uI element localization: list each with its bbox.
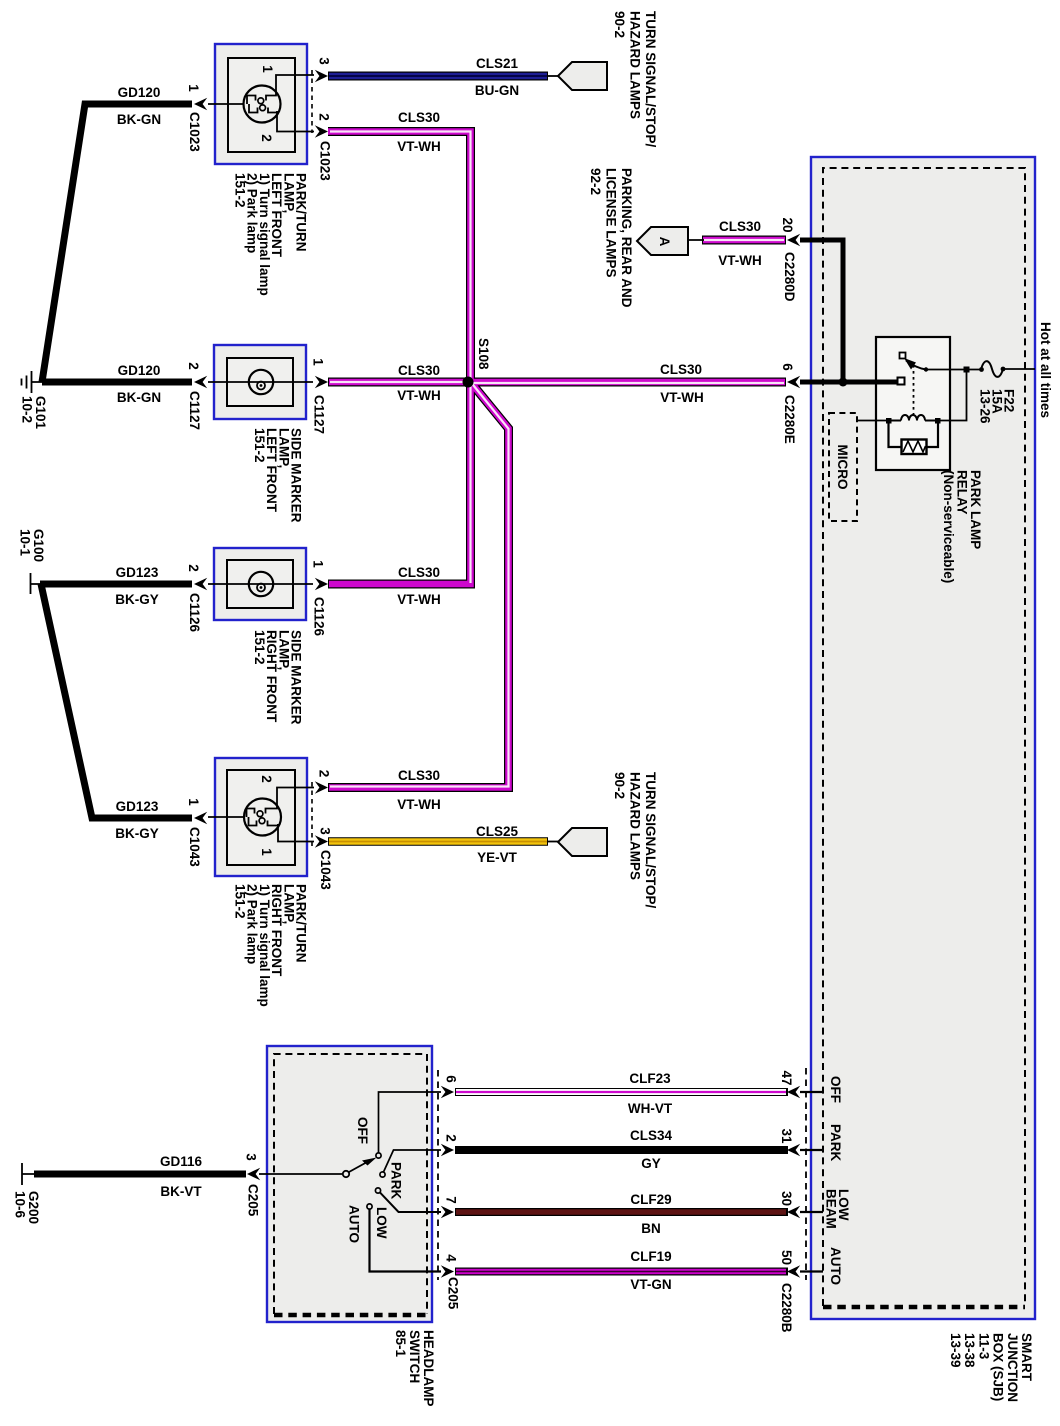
- svg-text:BK-VT: BK-VT: [160, 1184, 202, 1199]
- arrow lamp LF pin2: [315, 125, 328, 138]
- svg-text:CLF19: CLF19: [630, 1249, 671, 1264]
- side marker lamp right front box: [214, 548, 306, 620]
- switch LOW blade: [375, 1188, 380, 1193]
- splice S108: [463, 377, 474, 388]
- svg-text:CLS30: CLS30: [660, 362, 702, 377]
- switch common terminal: [343, 1171, 349, 1177]
- arrow switch pin3: [247, 1168, 260, 1181]
- smart junction box SJB outer box: [811, 157, 1035, 1319]
- arrow switch pin4: [441, 1265, 454, 1278]
- svg-text:CLF23: CLF23: [629, 1071, 671, 1086]
- side marker lamp left front inner box: [227, 358, 293, 406]
- svg-text:BU-GN: BU-GN: [475, 83, 519, 98]
- flag A parking rear license lamps: [637, 227, 688, 255]
- side marker lamp left front box: [214, 345, 306, 419]
- svg-text:C1043: C1043: [187, 827, 202, 867]
- park/turn lamp left front inner box: [228, 58, 295, 152]
- wire GD123 lamp RF pin1 to G100: [41, 584, 192, 818]
- arrow lamp RF pin2: [315, 781, 328, 794]
- arrow SM LF pin2: [194, 376, 207, 389]
- svg-text:GD123: GD123: [116, 799, 159, 814]
- wire GD123 side marker RF pin2 to G100: [40, 581, 192, 588]
- bulb lamp RF leads: [208, 788, 314, 842]
- svg-text:1: 1: [260, 65, 275, 73]
- bulb side marker RF filament: [257, 584, 265, 592]
- svg-text:C205: C205: [246, 1184, 261, 1217]
- wire CLS30 VT-WH network black underlay: [328, 132, 786, 788]
- wire CLF29 BN: [455, 1208, 788, 1216]
- svg-text:WH-VT: WH-VT: [628, 1101, 673, 1116]
- svg-text:LOW: LOW: [374, 1207, 389, 1239]
- svg-text:C2280B: C2280B: [779, 1283, 794, 1333]
- svg-text:C1023: C1023: [318, 141, 333, 181]
- svg-text:GY: GY: [641, 1156, 661, 1171]
- svg-text:GD116: GD116: [160, 1154, 203, 1169]
- svg-text:CLS30: CLS30: [398, 110, 440, 125]
- svg-text:GD123: GD123: [116, 565, 159, 580]
- svg-text:S108: S108: [476, 338, 491, 370]
- arrow SJB pin31: [787, 1144, 800, 1157]
- svg-text:6: 6: [444, 1075, 459, 1083]
- relay fixed contact square: [900, 353, 906, 359]
- flag turn signal/stop top: [558, 62, 607, 90]
- svg-text:2: 2: [259, 775, 274, 783]
- svg-text:7: 7: [444, 1196, 459, 1204]
- SJB side links for switch wires: [800, 1092, 823, 1272]
- arrow SM RF pin2: [194, 578, 207, 591]
- svg-text:2: 2: [186, 564, 201, 572]
- wire CLF19 VT-GN: [455, 1268, 788, 1276]
- ground G101: [22, 371, 47, 393]
- svg-text:PARK: PARK: [389, 1162, 404, 1200]
- switch OFF contact line to pin6: [379, 1092, 442, 1153]
- arrow SJB pin30: [787, 1206, 800, 1219]
- relay resistor: [902, 440, 927, 455]
- svg-text:CLS30: CLS30: [398, 565, 440, 580]
- svg-text:CLS34: CLS34: [630, 1128, 673, 1143]
- switch PARK line to pin2: [384, 1150, 442, 1172]
- svg-text:2: 2: [259, 134, 274, 142]
- svg-text:AUTO: AUTO: [828, 1247, 843, 1285]
- wire CLS34 GY: [455, 1146, 788, 1154]
- headlamp switch inner dashed boundary: [274, 1054, 427, 1314]
- wire GD120 lamp LF pin1 to G101: [42, 104, 192, 382]
- svg-text:VT-WH: VT-WH: [397, 388, 441, 403]
- svg-text:C2280D: C2280D: [782, 252, 797, 302]
- smart junction box inner dashed bottom bold edge: [823, 1305, 1025, 1310]
- park/turn lamp right front inner box: [227, 770, 295, 865]
- svg-text:3: 3: [318, 827, 333, 835]
- svg-text:30: 30: [779, 1191, 794, 1206]
- arrow SM LF pin1: [315, 376, 328, 389]
- svg-text:4: 4: [444, 1254, 459, 1262]
- bulb lamp RF filament: [247, 805, 279, 826]
- side marker lamp right front inner box: [227, 560, 293, 608]
- svg-text:C1023: C1023: [187, 112, 202, 152]
- micro dashed box: [829, 413, 857, 521]
- arrow SJB pin47: [787, 1086, 800, 1099]
- svg-text:BN: BN: [641, 1221, 661, 1236]
- bulb side marker LF lead through: [208, 381, 313, 383]
- flag turn signal/stop bottom: [558, 828, 607, 856]
- arrow SJB pin20: [787, 234, 800, 247]
- svg-text:OFF: OFF: [828, 1076, 843, 1103]
- svg-text:1: 1: [259, 848, 274, 856]
- arrow lamp LF pin1: [194, 98, 207, 111]
- svg-text:C1126: C1126: [187, 593, 202, 633]
- svg-text:50: 50: [779, 1250, 794, 1265]
- park/turn lamp right front box: [215, 758, 307, 876]
- svg-text:C1127: C1127: [187, 391, 202, 430]
- svg-text:A: A: [657, 237, 672, 247]
- svg-text:YE-VT: YE-VT: [477, 850, 518, 865]
- switch AUTO line to pin4: [370, 1210, 442, 1272]
- svg-text:BK-GN: BK-GN: [117, 112, 161, 127]
- wire GD116 switch pin3 to G200: [34, 1171, 246, 1178]
- arrow switch pin6: [441, 1086, 454, 1099]
- arrow SJB pin50: [787, 1265, 800, 1278]
- svg-text:BK-GN: BK-GN: [117, 390, 161, 405]
- svg-text:C1126: C1126: [312, 597, 327, 637]
- svg-text:VT-WH: VT-WH: [397, 797, 441, 812]
- relay contact to fuse line: [926, 369, 981, 371]
- svg-text:Hot at all times: Hot at all times: [1038, 322, 1053, 418]
- wire CLS30 VT-WH network magenta: [328, 132, 785, 788]
- wire CLF23 WH-VT: [455, 1088, 788, 1096]
- svg-text:2: 2: [317, 770, 332, 778]
- ground G200: [22, 1163, 38, 1185]
- arrow lamp RF pin1: [194, 812, 207, 825]
- wire CLS25 YE-VT: [546, 841, 560, 843]
- arrow lamp RF pin3: [315, 835, 328, 848]
- svg-text:VT-WH: VT-WH: [718, 253, 762, 268]
- svg-text:PARK: PARK: [828, 1124, 843, 1162]
- switch AUTO contact: [367, 1204, 372, 1209]
- connector C1023 dashed line: [311, 70, 313, 133]
- switch pin3 link: [259, 1173, 342, 1175]
- connector C1043 dashed line: [311, 782, 313, 846]
- svg-text:VT-WH: VT-WH: [397, 592, 441, 607]
- svg-text:3: 3: [244, 1153, 259, 1161]
- park/turn lamp left front box: [215, 44, 307, 164]
- switch OFF contact: [376, 1153, 381, 1158]
- svg-text:BK-GY: BK-GY: [115, 826, 159, 841]
- hot at all times feed line: [1003, 368, 1035, 370]
- svg-text:1: 1: [311, 358, 326, 366]
- bulb lamp LF circle: [244, 86, 281, 123]
- headlamp switch box: [267, 1046, 432, 1322]
- smart junction box inner dashed boundary: [823, 168, 1025, 1306]
- svg-text:C1043: C1043: [318, 850, 333, 890]
- relay blade: [906, 361, 926, 370]
- bulb side marker LF circle: [249, 370, 273, 394]
- switch blade to OFF: [349, 1162, 368, 1173]
- connector C2280B dashed line: [805, 1068, 807, 1280]
- SJB thick feed pin6 line: [800, 380, 897, 385]
- svg-text:1: 1: [186, 798, 201, 806]
- wire CLS21 BU-GN: [546, 75, 560, 77]
- svg-text:GD120: GD120: [118, 363, 161, 378]
- svg-text:CLS21: CLS21: [476, 56, 519, 71]
- svg-text:2: 2: [317, 113, 332, 121]
- switch PARK contact: [380, 1172, 385, 1177]
- svg-text:6: 6: [780, 363, 795, 371]
- arrow SM RF pin1: [315, 578, 328, 591]
- svg-text:CLF29: CLF29: [630, 1192, 671, 1207]
- bulb side marker LF filament: [257, 382, 265, 390]
- svg-text:MICRO: MICRO: [835, 445, 850, 490]
- svg-text:C1127: C1127: [312, 395, 327, 434]
- svg-text:BK-GY: BK-GY: [115, 592, 159, 607]
- headlamp switch inner dashed bottom bold edge: [274, 1313, 427, 1318]
- svg-text:2: 2: [444, 1134, 459, 1142]
- svg-text:31: 31: [779, 1128, 794, 1144]
- svg-text:VT-WH: VT-WH: [660, 390, 704, 405]
- wire CLS30 VT-WH network white stripe: [330, 132, 784, 787]
- park lamp relay box: [876, 337, 950, 470]
- svg-text:CLS25: CLS25: [476, 824, 519, 839]
- relay coil right lead to fuse junction: [940, 370, 967, 421]
- svg-text:CLS30: CLS30: [719, 219, 761, 234]
- svg-text:CLS30: CLS30: [398, 363, 440, 378]
- relay output terminal: [898, 378, 905, 385]
- svg-text:20: 20: [780, 217, 795, 232]
- svg-text:2: 2: [186, 362, 201, 370]
- arrow switch pin2: [441, 1144, 454, 1157]
- fuse F22: [981, 361, 1003, 377]
- relay coil left lead to micro: [857, 420, 886, 422]
- wire CLS30 flag link: [686, 239, 704, 241]
- relay actuator dotted line: [913, 365, 915, 417]
- arrow SJB pin6: [787, 376, 800, 389]
- svg-text:VT-WH: VT-WH: [397, 139, 441, 154]
- bulb side marker RF circle: [249, 572, 273, 596]
- arrow lamp LF pin3: [315, 70, 328, 83]
- relay resistor leads: [889, 423, 939, 447]
- svg-text:CLS30: CLS30: [398, 768, 440, 783]
- svg-text:OFF: OFF: [355, 1117, 370, 1144]
- junction dot on feed: [839, 378, 848, 387]
- bulb side marker RF lead through: [208, 583, 313, 585]
- bulb lamp LF leads: [208, 75, 314, 132]
- svg-text:1: 1: [311, 560, 326, 568]
- svg-text:3: 3: [317, 57, 332, 65]
- arrow switch pin7: [441, 1206, 454, 1219]
- svg-text:VT-GN: VT-GN: [630, 1277, 671, 1292]
- bulb lamp LF filament: [247, 92, 278, 113]
- relay coil: [891, 415, 935, 421]
- svg-text:GD120: GD120: [118, 85, 161, 100]
- svg-text:C205: C205: [446, 1277, 461, 1310]
- bulb lamp RF circle: [244, 799, 281, 836]
- svg-text:C2280E: C2280E: [782, 395, 797, 444]
- SJB thick feed pin20 branch: [800, 240, 843, 382]
- wire GD120 side marker LF pin2 to G101: [42, 379, 192, 386]
- svg-text:47: 47: [779, 1070, 794, 1085]
- svg-text:AUTO: AUTO: [347, 1205, 362, 1243]
- svg-text:1: 1: [186, 84, 201, 92]
- connector C205 dashed line: [437, 1070, 439, 1280]
- ground G100: [31, 573, 45, 594]
